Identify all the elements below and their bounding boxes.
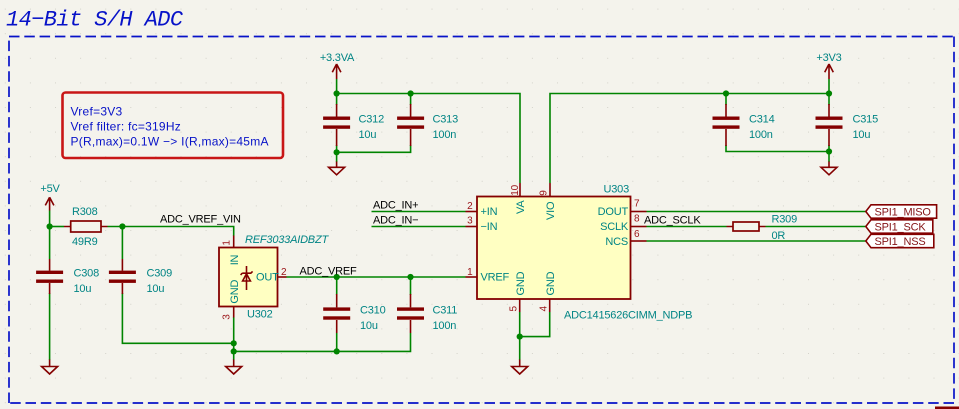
U303 pin 4 GND bbox=[549, 299, 551, 312]
junction C310 top bbox=[334, 274, 340, 280]
svg-text:C309: C309 bbox=[147, 268, 173, 280]
wire U303 GND5 down bbox=[519, 312, 521, 360]
svg-text:IN: IN bbox=[229, 254, 241, 265]
junction C309 gnd rail bbox=[231, 340, 237, 346]
U303 pin 2 +IN bbox=[466, 211, 478, 213]
capacitor C308 bbox=[36, 259, 99, 295]
svg-text:8: 8 bbox=[634, 214, 640, 225]
ground at C315 bbox=[821, 162, 837, 175]
svg-text:R308: R308 bbox=[72, 206, 98, 218]
U303 pin 9 VIO bbox=[549, 183, 551, 197]
svg-text:DOUT: DOUT bbox=[598, 206, 629, 218]
junction C313 top bbox=[408, 90, 414, 96]
wire C313 top bbox=[410, 94, 412, 106]
wire R309 to SPI1_SCK bbox=[766, 226, 866, 228]
capacitor C310 bbox=[323, 294, 385, 333]
wire +3V3 stem bbox=[828, 79, 830, 94]
junction C311 top bbox=[407, 274, 413, 280]
svg-text:1: 1 bbox=[222, 240, 233, 246]
junction +3V3 rail bbox=[826, 90, 832, 96]
wire C310 bottom bbox=[336, 333, 338, 351]
svg-text:ADC_IN−: ADC_IN− bbox=[373, 214, 418, 226]
U303 pin 5 GND bbox=[519, 299, 521, 312]
svg-text:−IN: −IN bbox=[481, 221, 498, 233]
wire NCS to SPI1_NSS bbox=[647, 240, 866, 242]
svg-text:GND: GND bbox=[229, 280, 241, 304]
U303 pin 3 -IN bbox=[466, 226, 478, 228]
capacitor C313 bbox=[397, 104, 458, 146]
ground at U303 bbox=[512, 360, 528, 375]
wire junction to R308 bbox=[50, 226, 64, 228]
svg-text:GND: GND bbox=[515, 271, 527, 295]
svg-text:10u: 10u bbox=[360, 320, 378, 332]
svg-text:10u: 10u bbox=[359, 129, 377, 141]
svg-text:ADC_SCLK: ADC_SCLK bbox=[644, 214, 701, 226]
sheet frame fragment bottom-right bbox=[935, 407, 959, 409]
wire C310 top bbox=[336, 277, 338, 295]
wire +5V stem to junction bbox=[49, 211, 51, 227]
wire DOUT to SPI1_MISO bbox=[647, 211, 866, 213]
junction +5V node bbox=[47, 223, 53, 229]
hierarchical label SPI1_SCK bbox=[866, 220, 933, 234]
svg-text:C311: C311 bbox=[433, 304, 458, 316]
capacitor C309 bbox=[109, 259, 172, 295]
svg-text:10u: 10u bbox=[853, 129, 871, 141]
svg-text:+3.3VA: +3.3VA bbox=[320, 52, 355, 64]
U303 pin 10 VA bbox=[519, 183, 521, 197]
ground at C308 bbox=[42, 360, 58, 375]
junction gnd rail U302 bbox=[231, 348, 237, 354]
svg-text:1: 1 bbox=[467, 267, 473, 278]
junction C310 gnd bbox=[334, 348, 340, 354]
svg-text:+5V: +5V bbox=[40, 183, 60, 195]
svg-text:ADC_VREF_VIN: ADC_VREF_VIN bbox=[160, 213, 241, 225]
junction +3.3VA rail bbox=[334, 90, 340, 96]
capacitor C312 bbox=[323, 104, 384, 146]
junction U303 gnd bbox=[517, 334, 523, 340]
svg-text:C312: C312 bbox=[359, 114, 385, 126]
junction C312 gnd bbox=[334, 149, 340, 155]
wire C311 top bbox=[410, 277, 412, 295]
svg-text:VA: VA bbox=[515, 200, 527, 214]
wire C308 bottom to ground bbox=[49, 293, 51, 360]
wire gnd rail C310 C311 bbox=[234, 333, 411, 351]
wire U302 GND pin down bbox=[233, 317, 235, 360]
svg-text:SPI1_MISO: SPI1_MISO bbox=[875, 207, 932, 219]
svg-text:ADC_IN+: ADC_IN+ bbox=[373, 199, 418, 211]
resistor R309 bbox=[727, 214, 798, 243]
svg-text:9: 9 bbox=[539, 190, 550, 196]
svg-text:C308: C308 bbox=[74, 268, 100, 280]
U302 zener diode bbox=[241, 266, 253, 290]
junction C315 gnd bbox=[826, 148, 832, 154]
svg-text:14−Bit S/H ADC: 14−Bit S/H ADC bbox=[6, 8, 184, 33]
wire +3.3VA stem bbox=[336, 79, 338, 94]
wire ADC_IN- bbox=[372, 226, 466, 228]
svg-text:100n: 100n bbox=[433, 320, 457, 332]
svg-text:4: 4 bbox=[539, 306, 550, 312]
wire U302 OUT to U303 VREF bbox=[287, 276, 466, 278]
power symbol +5V bbox=[40, 183, 60, 211]
svg-text:GND: GND bbox=[545, 271, 557, 295]
note box bbox=[63, 93, 284, 159]
wire +5V junction down to C308 bbox=[49, 227, 51, 260]
wire SCLK to R309 bbox=[647, 226, 727, 228]
svg-text:NCS: NCS bbox=[605, 236, 628, 248]
svg-text:C315: C315 bbox=[853, 114, 879, 126]
svg-text:6: 6 bbox=[634, 229, 640, 240]
svg-text:5: 5 bbox=[509, 306, 520, 312]
wire C315 bottom bbox=[828, 145, 830, 152]
U302 pin 2 OUT bbox=[278, 276, 287, 278]
wire C315 top bbox=[828, 94, 830, 106]
wire C312 top bbox=[336, 94, 338, 106]
svg-text:Vref filter: fc=319Hz: Vref filter: fc=319Hz bbox=[71, 119, 182, 133]
svg-text:SCLK: SCLK bbox=[600, 221, 629, 233]
wire ADC_IN+ bbox=[372, 211, 466, 213]
svg-text:P(R,max)=0.1W −> I(R,max)=45mA: P(R,max)=0.1W −> I(R,max)=45mA bbox=[71, 134, 269, 148]
wire 3.3VA rail to VA pin bbox=[337, 94, 520, 184]
svg-text:OUT: OUT bbox=[256, 271, 279, 283]
junction C314 top bbox=[723, 90, 729, 96]
svg-text:ADC1415626CIMM_NDPB: ADC1415626CIMM_NDPB bbox=[564, 310, 692, 322]
U303 pin 6 NCS bbox=[631, 240, 647, 242]
power symbol +3.3VA bbox=[320, 52, 355, 79]
junction C309 top bbox=[119, 223, 125, 229]
wire VIO riser and rail to +3V3 bbox=[550, 94, 829, 184]
svg-text:C314: C314 bbox=[749, 114, 775, 126]
svg-text:VIO: VIO bbox=[545, 201, 557, 220]
svg-text:2: 2 bbox=[467, 201, 473, 212]
U303 pin 1 VREF bbox=[466, 276, 478, 278]
resistor R308 bbox=[64, 206, 108, 248]
svg-text:0R: 0R bbox=[772, 230, 786, 242]
svg-text:U302: U302 bbox=[247, 309, 273, 321]
wire C314 top bbox=[725, 94, 727, 106]
svg-text:100n: 100n bbox=[749, 129, 773, 141]
svg-text:Vref=3V3: Vref=3V3 bbox=[71, 104, 123, 118]
svg-text:+3V3: +3V3 bbox=[816, 52, 841, 64]
wire gnd stub below C315 bbox=[828, 152, 830, 163]
capacitor C315 bbox=[816, 104, 879, 146]
wire C309 bottom to gnd rail bbox=[122, 293, 233, 343]
svg-text:R309: R309 bbox=[772, 214, 798, 226]
ground at C312 bbox=[329, 162, 345, 175]
wire C309 top bbox=[121, 227, 123, 260]
wire C312 bottom bbox=[336, 145, 338, 152]
svg-text:C310: C310 bbox=[360, 304, 386, 316]
wire U303 GND4 down bbox=[520, 312, 550, 337]
svg-text:U303: U303 bbox=[604, 184, 630, 196]
wire C314 bottom to rail bbox=[726, 145, 829, 152]
svg-text:ADC_VREF: ADC_VREF bbox=[300, 266, 358, 278]
U303 pin 8 SCLK bbox=[631, 226, 647, 228]
svg-text:10u: 10u bbox=[147, 283, 165, 295]
svg-text:+IN: +IN bbox=[481, 206, 498, 218]
capacitor C311 bbox=[397, 294, 457, 333]
svg-text:C313: C313 bbox=[433, 114, 459, 126]
ADC U303 bbox=[466, 183, 693, 322]
svg-text:3: 3 bbox=[222, 314, 233, 320]
svg-text:7: 7 bbox=[634, 199, 640, 210]
wire R308 to U302 IN corner bbox=[108, 227, 234, 237]
ground at U302 bbox=[226, 360, 242, 375]
U302 pin 3 GND bbox=[233, 307, 235, 318]
svg-text:100n: 100n bbox=[433, 129, 457, 141]
power symbol +3V3 bbox=[816, 52, 841, 79]
svg-text:10u: 10u bbox=[74, 283, 92, 295]
capacitor C314 bbox=[713, 104, 775, 146]
hierarchical label SPI1_NSS bbox=[866, 234, 934, 248]
U303 pin 7 DOUT bbox=[631, 211, 647, 213]
U302 pin 1 IN bbox=[233, 236, 235, 248]
svg-text:49R9: 49R9 bbox=[72, 236, 98, 248]
voltage reference U302 bbox=[219, 234, 329, 320]
svg-text:REF3033AIDBZT: REF3033AIDBZT bbox=[245, 234, 329, 246]
svg-text:10: 10 bbox=[510, 184, 521, 195]
wire gnd rail C312 C313 bbox=[337, 145, 411, 152]
svg-text:2: 2 bbox=[281, 267, 287, 278]
svg-text:VREF: VREF bbox=[481, 272, 510, 284]
svg-text:SPI1_NSS: SPI1_NSS bbox=[875, 236, 926, 248]
svg-text:SPI1_SCK: SPI1_SCK bbox=[875, 222, 927, 234]
wire gnd stub below C312 bbox=[336, 152, 338, 162]
svg-text:3: 3 bbox=[467, 215, 473, 226]
hierarchical label SPI1_MISO bbox=[866, 205, 937, 219]
